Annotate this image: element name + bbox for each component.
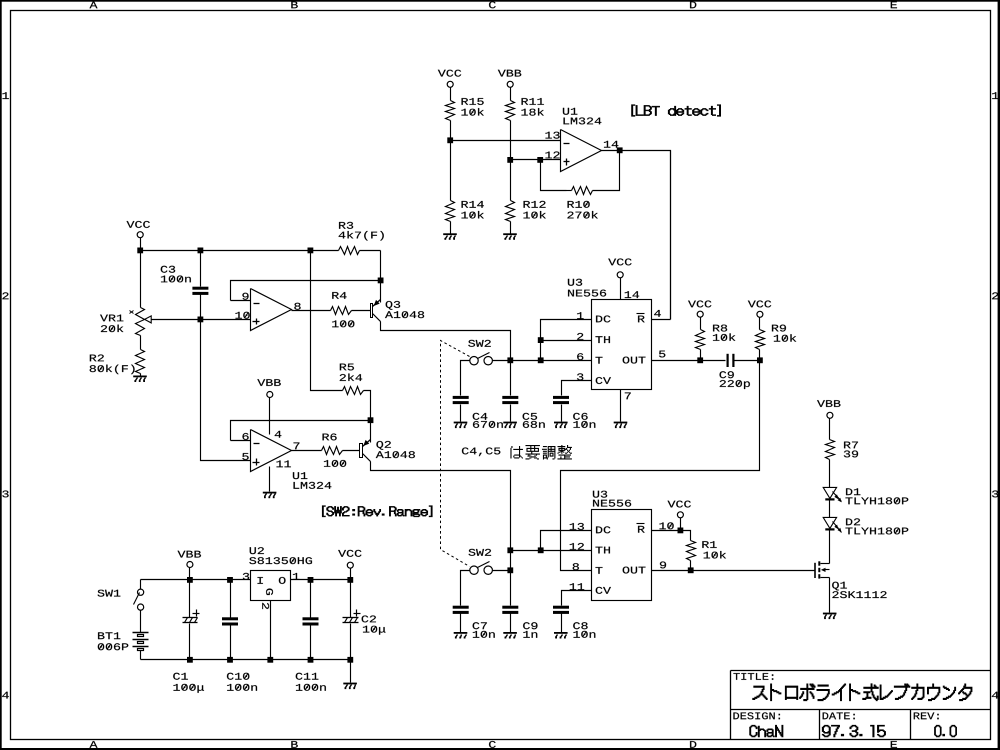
resistor R12: [506, 201, 546, 222]
op-amp U1 (LBT comparator): [561, 108, 602, 172]
[SW2:Rev.Range] label: [322, 506, 432, 517]
wire C9 to R9 node: [734, 360, 760, 362]
resistor R14: [446, 201, 484, 222]
wire VCC to VR1: [140, 251, 142, 308]
IC U3 NE556 (first timer): [568, 279, 652, 390]
pin 13 wire DC: [541, 523, 592, 551]
capacitor C3: [161, 251, 209, 320]
capacitor C8: [553, 606, 595, 638]
resistor R8: [696, 325, 736, 350]
node C11 top: [308, 577, 314, 583]
capacitor C9 220p: [720, 354, 750, 389]
node R12/feedback: [537, 157, 543, 163]
pin 11 wire CV: [562, 583, 592, 605]
switch SW1: [98, 589, 144, 610]
VBB terminal (U1b): [257, 379, 280, 434]
pin 9 output wire to gate: [652, 561, 815, 570]
node R3 left: [308, 248, 314, 254]
wire Q3 collector: [381, 322, 511, 361]
pin 3 wire CV: [562, 373, 592, 395]
node wiper/C3: [198, 317, 204, 323]
wire SW1 to battery: [140, 611, 142, 633]
capacitor C9 1n: [502, 551, 537, 638]
VBB terminal (R11): [498, 70, 521, 101]
VCC terminal (R8): [688, 300, 711, 329]
pin 13 label: [545, 132, 559, 139]
op-amp U1 (one-shot comparator): [251, 430, 300, 472]
wire U2 pin 2 to ground rail: [270, 601, 272, 660]
pin 7 wire to ground: [621, 390, 631, 422]
wire SW2 to C4: [461, 361, 470, 396]
DATE label: [823, 712, 855, 719]
IC U3 NE556 (second timer): [592, 491, 652, 601]
resistor R4: [331, 292, 355, 327]
resistor R11: [506, 98, 544, 120]
wire R5 to Q2 emitter node: [364, 391, 371, 421]
reset wire from LBT: [670, 151, 672, 320]
VCC terminal (pin 14): [608, 258, 639, 299]
node C9 1n: [507, 567, 513, 573]
wire SW2 common to node: [493, 570, 511, 572]
ground rail: [141, 659, 351, 661]
wire node down to R12: [510, 160, 512, 201]
node TH/DC 2: [538, 547, 544, 553]
trigger coupling wire down: [561, 361, 760, 571]
switch SW2 (lower pole): [469, 549, 493, 575]
pin 8 wire T: [573, 563, 579, 570]
DESIGN label: [733, 712, 780, 719]
revision value: [934, 725, 956, 737]
wire D1 to D2: [829, 501, 831, 518]
wire R12 to ground: [510, 222, 512, 234]
schematic title text: [753, 684, 972, 701]
node C10 top: [227, 577, 233, 583]
node VCC rail left: [137, 248, 143, 254]
pin 1 wire DC: [541, 312, 592, 340]
pin 5 label: [242, 453, 248, 460]
pin 14 label: [604, 141, 618, 148]
LED D1: [823, 487, 908, 504]
node VBB/C1: [187, 577, 193, 583]
ground (Q1): [823, 613, 837, 620]
date value: [822, 725, 885, 737]
node R1/OUT: [688, 567, 694, 573]
VCC terminal (R15): [438, 70, 461, 101]
VCC terminal (supply): [338, 550, 361, 580]
wire node to pin 13: [451, 140, 561, 142]
ground (supply): [343, 683, 357, 690]
node C9/TH: [507, 547, 513, 553]
wire op-amp output: [602, 150, 620, 152]
ground (C7): [454, 632, 468, 639]
wire R7 to D1: [829, 460, 831, 488]
pin 12 wire TH: [511, 543, 592, 551]
wire VR1 to R2: [140, 336, 142, 350]
[LBT detect] label: [632, 105, 721, 117]
ground (C5): [503, 422, 517, 429]
VCC supply rail: [291, 579, 351, 581]
node VCC/C2: [347, 577, 353, 583]
VBB supply rail: [141, 579, 251, 581]
battery BT1: [98, 632, 149, 650]
pin 4 wire reset: [652, 310, 671, 320]
wire R1 to output: [690, 561, 692, 571]
wire R11 to pin12 line: [510, 121, 512, 160]
ground (pin 11): [263, 492, 277, 498]
wire output to right corner: [620, 151, 671, 320]
vertical wire VCC rail to R5: [311, 251, 343, 391]
regulator U2 S81350HG: [243, 547, 312, 609]
resistor R6: [292, 433, 360, 466]
C4 C5 adjust note: [462, 445, 572, 459]
title block box: [731, 671, 991, 740]
wire TH node to T node: [540, 341, 542, 361]
ground (R12): [503, 233, 517, 239]
resistor R7: [826, 440, 859, 460]
pin 12 label: [545, 151, 559, 158]
wire Q3 emitter: [380, 281, 382, 303]
capacitor C6: [553, 396, 595, 428]
capacitor C7: [453, 606, 495, 638]
resistor R5: [340, 364, 364, 395]
node pin2/rail: [267, 657, 273, 663]
wire R3 down to emitter node: [380, 251, 382, 281]
pin 8 output wire: [292, 303, 331, 311]
potentiometer VR1: [100, 308, 151, 336]
pin 4 label: [275, 431, 282, 438]
wire D2 to Q1 drain: [829, 531, 831, 564]
ground (R14): [443, 233, 457, 239]
wire SW2 to C7: [461, 571, 470, 606]
op-amp U1 (F/V integrator): [251, 289, 332, 489]
wire VCC rail: [141, 250, 311, 252]
capacitor C2: [343, 580, 386, 660]
VBB terminal (R7): [817, 400, 840, 439]
ground (C9 1n): [503, 632, 517, 639]
node VCC/pin10: [678, 528, 684, 534]
wire Q2 emitter: [370, 421, 372, 443]
pin 9 stub and label: [231, 293, 251, 301]
ground (C6): [554, 422, 568, 429]
node R9/trigger: [757, 357, 763, 363]
pin 6 wire T: [511, 353, 592, 360]
wire Q2 collector to SW2: [371, 462, 511, 551]
transistor Q3: [371, 300, 425, 322]
wire SW2 common to T line: [493, 360, 511, 362]
VBB terminal (supply): [178, 551, 201, 580]
capacitor C11: [296, 580, 326, 691]
pin 9 feedback wire: [231, 281, 381, 301]
designer name: [750, 725, 783, 737]
TITLE label: [733, 673, 773, 680]
VCC terminal (R1): [668, 501, 691, 531]
VCC terminal (R9): [748, 300, 771, 329]
resistor R2: [90, 350, 145, 375]
resistor R9: [756, 325, 797, 350]
wire VR1 wiper: [152, 319, 201, 321]
node R11/pin12: [507, 157, 513, 163]
pin 5 output wire: [652, 351, 726, 361]
wire R4 to Q3 base: [352, 310, 371, 312]
resistor R10: [567, 187, 598, 219]
REV label: [914, 712, 939, 719]
node R15/R14/pin13: [447, 137, 453, 143]
row numbers left: [2, 92, 9, 698]
wire R14 to ground: [450, 222, 452, 234]
wire R2 to ground: [140, 374, 142, 376]
wire R15 to node: [450, 121, 452, 141]
node C3 top: [198, 248, 204, 254]
node Q2 emitter/feedback: [368, 417, 374, 423]
feedback wire to R10: [541, 160, 567, 191]
wire pin 12 line: [511, 159, 561, 161]
resistor R15: [446, 98, 484, 120]
column letters bottom: [90, 741, 898, 748]
MOSFET Q1: [814, 561, 886, 598]
LED D2: [823, 517, 908, 534]
capacitor C10: [222, 580, 257, 691]
pin 10 label: [235, 312, 249, 319]
pin 10 wire reset: [652, 522, 691, 540]
column letters top: [90, 1, 898, 8]
node C1 bottom: [187, 657, 193, 663]
wire battery to rail: [140, 651, 142, 660]
switch SW2 (upper pole): [468, 340, 492, 365]
wire R8 to node: [700, 350, 702, 361]
capacitor C4: [453, 396, 503, 428]
node R8/OUT: [697, 357, 703, 363]
node C10 bottom: [227, 657, 233, 663]
node C11 bottom: [308, 657, 314, 663]
node T/TH tie: [538, 357, 544, 363]
pin 6 feedback wire: [231, 421, 371, 441]
node C2 bottom: [347, 657, 353, 663]
ground (pin 7): [614, 422, 628, 429]
node output/R10: [617, 147, 623, 153]
wire R9 to node: [759, 350, 761, 361]
wire rail to SW1: [140, 580, 142, 590]
wire Q1 source to ground: [829, 578, 831, 613]
wire node down to R14: [450, 141, 452, 201]
ground (C8): [554, 632, 568, 639]
wire R10 to output node: [593, 151, 620, 191]
switch link dashed line: [441, 341, 470, 567]
VCC terminal (VR1): [127, 221, 150, 251]
node TH/DC: [538, 337, 544, 343]
capacitor C1: [173, 580, 204, 693]
wire wiper to pin 10: [201, 319, 251, 321]
wire wiper down to pin 5: [201, 320, 251, 461]
pin 2 wire TH: [541, 333, 592, 341]
capacitor C5: [502, 361, 544, 428]
pin 11 wire to ground: [270, 460, 291, 491]
ground (C4): [454, 422, 468, 429]
wire C2 node to ground: [350, 660, 352, 683]
resistor R3: [311, 222, 384, 255]
row numbers right: [992, 92, 999, 698]
transistor Q2: [360, 440, 415, 462]
ground (R2): [133, 376, 147, 383]
resistor R1: [687, 541, 727, 561]
pin 6 stub and label: [231, 433, 251, 441]
node Q3 emitter/feedback: [378, 278, 384, 284]
node C5/T: [507, 357, 513, 363]
